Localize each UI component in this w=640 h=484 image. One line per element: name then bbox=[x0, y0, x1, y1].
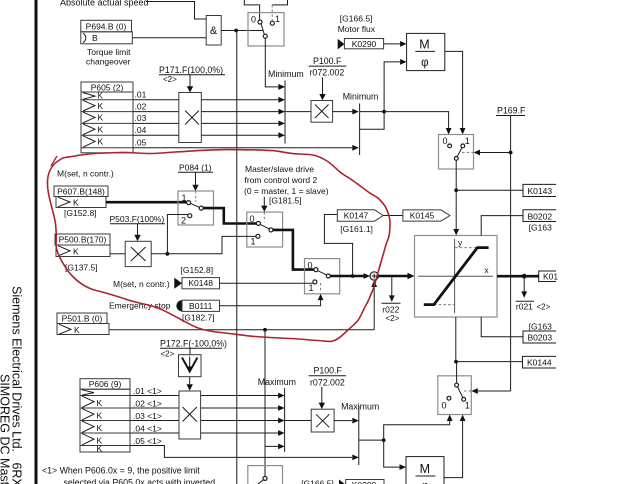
svg-text:Minimum: Minimum bbox=[343, 92, 379, 102]
svg-text:Maximum: Maximum bbox=[341, 402, 379, 412]
svg-text:K: K bbox=[98, 101, 104, 111]
svg-text:2: 2 bbox=[181, 215, 186, 225]
svg-text:1: 1 bbox=[182, 193, 187, 203]
svg-text:Maximum: Maximum bbox=[258, 377, 296, 387]
svg-text:.02: .02 bbox=[135, 101, 147, 111]
svg-text:0: 0 bbox=[250, 214, 255, 224]
svg-text:r072.002: r072.002 bbox=[310, 377, 345, 387]
svg-text:r022: r022 bbox=[382, 304, 399, 314]
svg-text:<2>: <2> bbox=[537, 302, 551, 311]
svg-text:[G152.8]: [G152.8] bbox=[181, 265, 214, 275]
svg-text:K: K bbox=[98, 92, 104, 101]
svg-text:.02 <1>: .02 <1> bbox=[133, 399, 162, 409]
svg-text:P605 (2): P605 (2) bbox=[91, 82, 124, 92]
svg-text:K: K bbox=[73, 197, 79, 207]
svg-text:1: 1 bbox=[251, 237, 256, 247]
svg-text:K: K bbox=[98, 125, 104, 135]
svg-text:.03 <1>: .03 <1> bbox=[133, 411, 162, 421]
svg-text:x: x bbox=[484, 265, 489, 275]
svg-text:P501.B (0): P501.B (0) bbox=[62, 314, 103, 324]
svg-text:from control word 2: from control word 2 bbox=[245, 175, 318, 185]
svg-text:1: 1 bbox=[465, 136, 470, 146]
svg-text:K: K bbox=[97, 423, 103, 433]
svg-text:P171.F(100,0%): P171.F(100,0%) bbox=[159, 65, 223, 75]
svg-text:<2>: <2> bbox=[386, 314, 400, 323]
svg-text:[G163: [G163 bbox=[529, 223, 552, 233]
svg-text:P503.F(100%): P503.F(100%) bbox=[110, 214, 165, 224]
svg-text:P169.F: P169.F bbox=[497, 106, 526, 116]
svg-text:K0290: K0290 bbox=[352, 480, 377, 484]
svg-text:[G137.5]: [G137.5] bbox=[65, 262, 98, 272]
svg-text:r021: r021 bbox=[516, 302, 533, 312]
svg-text:[G161.1]: [G161.1] bbox=[340, 224, 373, 234]
svg-text:P500.B(170): P500.B(170) bbox=[59, 235, 107, 245]
svg-text:P606 (9): P606 (9) bbox=[89, 379, 122, 389]
svg-text:φ: φ bbox=[421, 57, 428, 69]
svg-text:M: M bbox=[420, 462, 430, 476]
svg-text:[G152.8]: [G152.8] bbox=[64, 208, 97, 218]
svg-text:K: K bbox=[98, 113, 104, 123]
svg-text:K0145: K0145 bbox=[410, 210, 435, 220]
svg-text:P694.B (0): P694.B (0) bbox=[86, 21, 127, 31]
svg-text:&: & bbox=[210, 25, 218, 37]
svg-text:Master/slave drive: Master/slave drive bbox=[245, 164, 314, 174]
svg-text:r072.002: r072.002 bbox=[310, 68, 345, 78]
svg-text:1: 1 bbox=[465, 401, 470, 411]
svg-text:(0 = master, 1 = slave): (0 = master, 1 = slave) bbox=[244, 186, 329, 196]
svg-text:selected via P605.0x acts with: selected via P605.0x acts with inverted bbox=[64, 478, 216, 484]
svg-text:SIMOREG DC Master: SIMOREG DC Master bbox=[0, 374, 12, 484]
svg-text:K: K bbox=[97, 443, 103, 453]
svg-text:P100.F: P100.F bbox=[313, 56, 342, 66]
svg-text:B0203: B0203 bbox=[528, 333, 553, 343]
svg-text:Motor flux: Motor flux bbox=[338, 24, 376, 34]
svg-text:[G182.7]: [G182.7] bbox=[182, 313, 215, 323]
svg-text:[G166.5]: [G166.5] bbox=[301, 479, 334, 484]
svg-text:P607.B(148): P607.B(148) bbox=[57, 187, 105, 197]
svg-text:K01: K01 bbox=[543, 271, 558, 281]
svg-text:P084 (1): P084 (1) bbox=[179, 163, 212, 173]
svg-text:.01 <1>: .01 <1> bbox=[133, 386, 162, 396]
svg-text:M: M bbox=[419, 38, 429, 52]
svg-text:.03: .03 bbox=[135, 113, 147, 123]
svg-text:<2>: <2> bbox=[163, 75, 177, 84]
svg-text:0: 0 bbox=[251, 15, 256, 25]
svg-text:Absolute actual speed: Absolute actual speed bbox=[60, 0, 149, 8]
svg-text:B: B bbox=[92, 33, 98, 43]
svg-text:.04 <1>: .04 <1> bbox=[133, 424, 162, 434]
svg-text:K: K bbox=[74, 325, 80, 335]
svg-text:<2>: <2> bbox=[161, 350, 175, 359]
svg-text:B0202: B0202 bbox=[528, 211, 553, 221]
svg-text:φ: φ bbox=[421, 481, 428, 484]
svg-text:.04: .04 bbox=[135, 125, 147, 135]
svg-text:[G163: [G163 bbox=[529, 321, 552, 331]
svg-text:K0143: K0143 bbox=[528, 186, 553, 196]
svg-text:0: 0 bbox=[443, 136, 448, 146]
svg-text:K: K bbox=[97, 398, 103, 408]
svg-text:.05 <1>: .05 <1> bbox=[133, 436, 162, 446]
svg-text:Minimum: Minimum bbox=[268, 69, 304, 79]
svg-text:K: K bbox=[97, 411, 103, 421]
svg-text:Torque limit: Torque limit bbox=[87, 47, 131, 57]
svg-text:K: K bbox=[98, 137, 104, 147]
svg-text:0: 0 bbox=[308, 260, 313, 270]
svg-text:changeover: changeover bbox=[86, 57, 131, 67]
svg-text:<1> When P606.0x = 9, the posi: <1> When P606.0x = 9, the positive limit bbox=[42, 465, 200, 475]
svg-text:K: K bbox=[73, 246, 79, 256]
svg-text:K0148: K0148 bbox=[188, 278, 213, 288]
svg-text:.05: .05 bbox=[135, 138, 147, 148]
svg-text:K0290: K0290 bbox=[352, 39, 377, 49]
svg-text:B0111: B0111 bbox=[189, 301, 213, 311]
svg-text:1: 1 bbox=[309, 283, 314, 293]
svg-text:1: 1 bbox=[275, 14, 280, 24]
svg-text:[G166.5]: [G166.5] bbox=[340, 13, 373, 23]
svg-text:.01: .01 bbox=[135, 90, 147, 100]
svg-text:P100.F: P100.F bbox=[314, 366, 343, 376]
svg-text:M(set, n contr.): M(set, n contr.) bbox=[113, 279, 170, 289]
svg-text:M(set, n contr.): M(set, n contr.) bbox=[57, 168, 114, 178]
svg-text:[G181.5]: [G181.5] bbox=[269, 196, 302, 206]
svg-text:K0147: K0147 bbox=[344, 210, 369, 220]
svg-text:K0144: K0144 bbox=[527, 358, 552, 368]
svg-text:0: 0 bbox=[442, 401, 447, 411]
svg-text:P172.F(-100,0%): P172.F(-100,0%) bbox=[160, 338, 227, 348]
